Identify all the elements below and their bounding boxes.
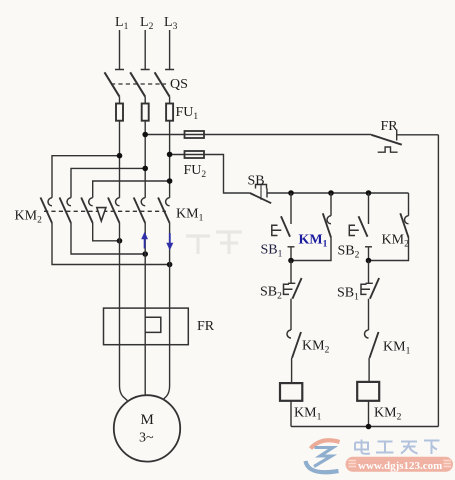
button SB2 start (NO) xyxy=(359,193,373,261)
mechanical interlock triangle xyxy=(97,208,106,221)
logo text 电工天下 (drawn glyphs) xyxy=(355,440,440,455)
svg-text:M: M xyxy=(141,412,154,428)
fuse FU1 pole2 xyxy=(142,104,149,121)
thermal relay FR heater bump xyxy=(145,317,161,332)
wire right edge return (FR to bottom rail) xyxy=(437,135,439,427)
button SB2 actuator E xyxy=(349,225,359,235)
wire phase A branch to KM2 contact 1 xyxy=(52,156,120,198)
node junction phase B / FU2a xyxy=(142,132,148,138)
wire L1 lead-in xyxy=(115,30,124,70)
contactor KM2 main contact 1 xyxy=(41,198,53,224)
wire phase C branch to KM2 contact 3 xyxy=(93,181,170,198)
button SB stop (NC) xyxy=(250,185,271,204)
wire control feed from phase C to fuse FU2b then down to SB xyxy=(170,155,250,194)
wire FR to motor lead W xyxy=(163,345,170,400)
button SB2 interlock (NC) in KM1 branch xyxy=(288,261,302,331)
coil KM2 label xyxy=(374,406,402,423)
node junction SB1/KM1-latch bottom xyxy=(288,258,294,264)
svg-text:3~: 3~ xyxy=(139,431,154,446)
button SB1 interlock (NC) in KM2 branch xyxy=(366,261,380,331)
contact KM2 self-latch (NO) xyxy=(369,193,409,261)
node junction SB2/KM2-latch bottom xyxy=(366,258,372,264)
switch QS linkage dashed line xyxy=(111,83,166,85)
wire motor lead V (phase B down to FR) xyxy=(144,223,146,308)
node rail junction branch 1 (SB1) xyxy=(288,190,294,196)
svg-text:FR: FR xyxy=(381,119,399,134)
button SB2 start label xyxy=(338,244,360,261)
logo swirl icon xyxy=(306,440,340,472)
node rail junction branch 3 (SB2) xyxy=(366,190,372,196)
svg-text:QS: QS xyxy=(170,77,188,92)
wire control rail after SB xyxy=(267,192,409,194)
node L1 label xyxy=(115,15,129,32)
wire control feed from phase B to fuse FU2a and FR contact xyxy=(145,134,371,136)
wire phase B column (FU1 to KM1 contact) xyxy=(144,121,146,198)
contactor KM2 main contact 3 xyxy=(81,198,93,224)
node junction phase B output xyxy=(142,251,148,257)
fuse FU2b xyxy=(185,151,205,158)
thermal relay FR heater box xyxy=(104,308,189,345)
button SB1 actuator E xyxy=(272,225,282,235)
contact KM1 self-latch (NO) xyxy=(291,193,331,261)
relay FR contact label xyxy=(381,119,399,134)
wire QS pole3 to FU1 xyxy=(169,97,171,104)
fuse FU2a xyxy=(185,131,205,138)
svg-text:FR: FR xyxy=(197,319,215,334)
contactor KM1 main contact 1 xyxy=(108,198,120,224)
wire bottom rail xyxy=(291,426,438,428)
switch QS pole 1 blade xyxy=(105,72,120,96)
wire phase B branch to KM2 contact 2 xyxy=(71,168,145,197)
contactor KM1 label xyxy=(176,207,204,224)
contactor KM1 main contact 3 xyxy=(158,198,170,224)
thermal relay FR heater element conductors inside box xyxy=(120,308,170,345)
fuse FU1 label xyxy=(176,105,199,122)
contactor KM2 main contact 2 xyxy=(60,198,72,224)
motor M label xyxy=(141,412,154,428)
motor 3~ label xyxy=(139,431,154,446)
motor M 3~ xyxy=(114,395,180,461)
svg-text:SB: SB xyxy=(248,174,265,189)
contact KM1 interlock label xyxy=(383,340,411,357)
watermark faint gray marks xyxy=(186,232,242,254)
wire coil KM1 to bottom rail xyxy=(290,401,292,427)
switch QS pole 2 blade xyxy=(130,72,145,96)
wire KM2 contact1 bottom to phase C node xyxy=(52,223,170,265)
switch QS label xyxy=(170,77,188,92)
fuse FU2 label xyxy=(184,163,207,180)
wire L2 lead-in xyxy=(141,30,150,70)
contact KM1 interlock (NC) xyxy=(365,330,379,382)
contactor KM2 label xyxy=(15,209,43,226)
contact KM2 interlock (NC) xyxy=(287,330,301,383)
wire FR to motor lead U xyxy=(120,345,128,401)
node junction phase A output xyxy=(117,238,123,244)
thermal relay FR label xyxy=(197,319,215,334)
node junction phase C branch xyxy=(167,178,173,184)
node junction phase C / FU2b xyxy=(167,152,173,158)
wire coil KM2 to bottom rail xyxy=(368,401,370,427)
node bottom rail junction xyxy=(366,424,372,430)
coil KM1 label xyxy=(294,406,322,423)
wire phase C column (FU1 to KM1 contact) xyxy=(169,121,171,198)
wire phase A column (FU1 to KM1 contact) xyxy=(119,121,121,198)
mechanical linkage dashed line xyxy=(44,210,166,212)
fuse FU1 pole3 xyxy=(166,104,173,121)
contact KM2 latch label xyxy=(382,233,410,250)
wire QS pole2 to FU1 xyxy=(144,97,146,104)
coil KM1 xyxy=(280,383,302,401)
contact KM2 interlock label xyxy=(302,339,330,356)
svg-text:www.dgjs123.com: www.dgjs123.com xyxy=(358,460,442,472)
logo banner www.dgjs123.com xyxy=(346,457,454,472)
wire FR to motor lead V xyxy=(144,345,146,396)
button SB1 interlock actuator E xyxy=(361,284,370,294)
button SB1 start (NO) xyxy=(281,193,295,261)
wire KM2 contact2 bottom to phase B node xyxy=(71,223,145,254)
button SB2 interlock actuator E xyxy=(284,284,293,294)
wire L3 lead-in xyxy=(165,30,174,70)
wire KM2 contact3 bottom to phase A node xyxy=(93,223,120,241)
contact KM1 latch label (blue) xyxy=(299,233,328,250)
button SB label xyxy=(248,174,265,189)
switch QS pole 3 blade xyxy=(155,72,170,96)
contactor KM1 main contact 2 xyxy=(134,198,146,224)
relay FR NC contact (top right) xyxy=(371,130,438,145)
annotation blue arrow up (phase B) xyxy=(141,232,148,249)
relay FR trip symbol xyxy=(378,147,398,152)
fuse FU1 pole1 xyxy=(116,104,123,121)
button SB2 interlock label xyxy=(260,285,282,302)
wire motor lead U (phase A down to FR) xyxy=(119,223,121,308)
node L3 label xyxy=(164,15,178,32)
button SB1 label xyxy=(261,243,283,260)
button SB1 interlock label xyxy=(337,286,359,303)
node L2 label xyxy=(140,15,154,32)
wire QS pole1 to FU1 xyxy=(119,97,121,104)
wire motor lead W (phase C down to FR) xyxy=(169,223,171,308)
annotation blue arrow down (phase C) xyxy=(166,233,173,250)
node junction phase A branch xyxy=(117,153,123,159)
coil KM2 xyxy=(357,382,379,401)
CONTROL-CIRCUIT xyxy=(248,119,439,429)
node junction phase C output xyxy=(167,262,173,268)
node rail junction branch 2 (KM1 latch) xyxy=(328,190,334,196)
node junction phase B branch xyxy=(142,166,148,172)
